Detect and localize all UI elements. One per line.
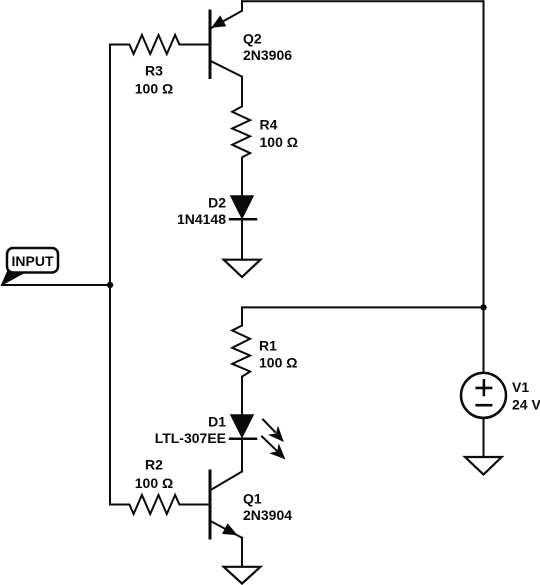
svg-text:1N4148: 1N4148: [177, 211, 226, 227]
wire V1 to ground: [483, 418, 485, 457]
label V1: [512, 379, 540, 413]
voltage source V1: [461, 373, 506, 418]
label R2: [135, 457, 173, 492]
ground under D2: [224, 260, 261, 277]
wire Q1 emitter to ground: [241, 538, 243, 567]
svg-text:INPUT: INPUT: [12, 253, 54, 269]
wire left rail: [109, 45, 111, 505]
wire top rail: [242, 0, 484, 2]
svg-text:R1: R1: [259, 338, 277, 354]
diode D2: [230, 196, 256, 219]
svg-text:D1: D1: [208, 414, 226, 430]
label R3 value: [135, 63, 173, 97]
svg-text:100 Ω: 100 Ω: [135, 475, 173, 491]
ground under Q1: [224, 567, 261, 584]
svg-text:V1: V1: [512, 379, 529, 395]
resistor R4: [232, 106, 250, 196]
svg-text:100 Ω: 100 Ω: [259, 355, 297, 371]
wire right rail to V1: [483, 307, 485, 373]
svg-text:24 V: 24 V: [512, 397, 540, 413]
svg-text:R3: R3: [145, 63, 163, 79]
svg-text:Q1: Q1: [243, 491, 262, 507]
label D2: [177, 195, 226, 228]
label D1: [155, 414, 227, 447]
svg-text:R4: R4: [260, 117, 278, 133]
LED D1: [230, 415, 285, 459]
wire D1 to Q1 collector: [241, 439, 243, 472]
transistor Q1: [210, 471, 242, 538]
svg-text:100 Ω: 100 Ω: [135, 81, 173, 97]
wire D2 to ground: [241, 219, 243, 259]
ground under V1: [465, 457, 502, 475]
svg-text:R2: R2: [145, 457, 163, 473]
flag INPUT: [2, 248, 58, 285]
transistor Q2: [210, 1, 243, 77]
label R4: [260, 117, 298, 151]
resistor R2: [110, 495, 209, 514]
svg-text:100 Ω: 100 Ω: [260, 134, 298, 150]
resistor R1: [232, 326, 250, 416]
svg-text:Q2: Q2: [243, 31, 262, 47]
label R1: [259, 338, 297, 371]
resistor R3: [110, 35, 209, 54]
svg-text:2N3906: 2N3906: [243, 47, 292, 63]
wire right rail upper: [483, 1, 485, 307]
svg-text:2N3904: 2N3904: [243, 507, 292, 523]
label Q2: [243, 31, 292, 64]
wire Q2 collector to R4: [241, 77, 243, 107]
node junction right rail: [480, 304, 486, 310]
svg-text:D2: D2: [208, 195, 226, 211]
node junction input/left rail: [107, 282, 113, 288]
wire mid rail to R1: [242, 307, 484, 325]
wire INPUT net: [2, 284, 110, 286]
svg-text:LTL-307EE: LTL-307EE: [155, 430, 226, 446]
label Q1: [243, 491, 292, 524]
